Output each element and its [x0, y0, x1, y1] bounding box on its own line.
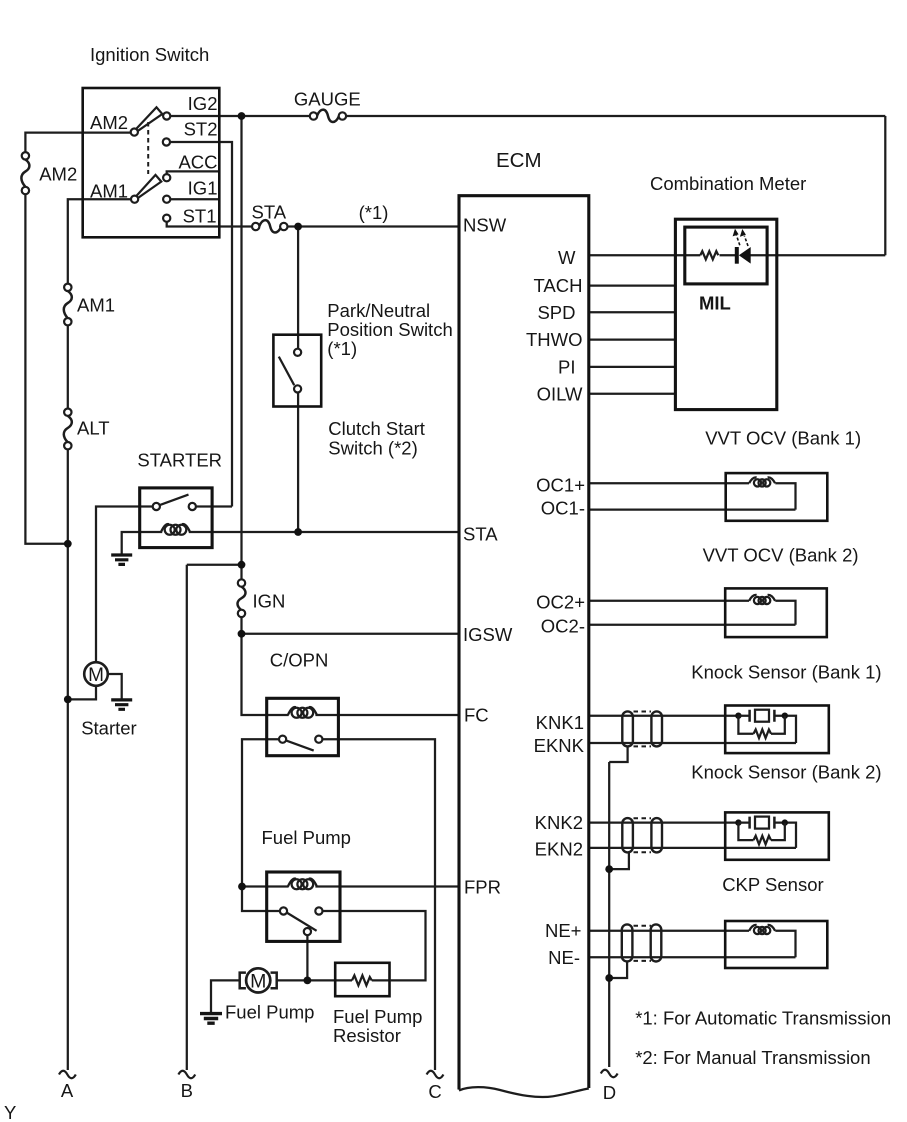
fuel pump relay lever	[287, 913, 317, 931]
svg-text:OC1+: OC1+	[536, 475, 585, 496]
resistor MIL	[700, 251, 718, 259]
wire IGN fuse segments	[242, 565, 289, 715]
node IGSW junction	[238, 630, 246, 638]
svg-text:A: A	[61, 1080, 74, 1101]
svg-text:OC2+: OC2+	[536, 592, 585, 613]
wire IG1	[170, 198, 219, 200]
svg-text:VVT OCV (Bank 1): VVT OCV (Bank 1)	[705, 428, 861, 449]
node fuel pump motor junction	[304, 977, 312, 985]
node STA junction	[294, 223, 302, 231]
wire IGSW	[242, 633, 459, 635]
CKP sensor box	[725, 921, 827, 968]
wire AM1-ALT segment	[67, 325, 69, 409]
ground starter relay	[111, 555, 132, 564]
shielded cable KNK2 dashed	[634, 818, 652, 852]
svg-text:AM1: AM1	[90, 181, 128, 202]
svg-text:M: M	[88, 665, 104, 686]
svg-text:THWO: THWO	[526, 329, 583, 350]
svg-text:C: C	[428, 1081, 441, 1102]
svg-text:Clutch Start: Clutch Start	[328, 418, 425, 439]
svg-text:Y: Y	[4, 1102, 16, 1122]
svg-text:ACC: ACC	[178, 152, 217, 173]
ECM box	[459, 196, 589, 1090]
wire SPD	[589, 311, 674, 313]
wire shield drain bus to D	[608, 762, 610, 1067]
wire GAUGE vertical down to MIL	[884, 116, 886, 255]
wire starter motor bottom to bus	[68, 686, 96, 700]
shielded cable KNK2 pills	[622, 818, 633, 852]
shielded cable NE dashed	[634, 926, 652, 961]
svg-text:IG1: IG1	[188, 178, 218, 199]
MIL box	[685, 227, 767, 284]
wire B branch	[187, 564, 242, 566]
svg-text:TACH: TACH	[534, 275, 583, 296]
svg-text:IGSW: IGSW	[463, 624, 513, 645]
ECM wavy bottom	[459, 1087, 589, 1097]
wire AM2 bus below fuse to junction	[25, 194, 67, 544]
svg-text:STA: STA	[463, 523, 498, 544]
wire C/OPN switch left down to fuel pump	[242, 739, 280, 911]
node starter motor junction	[64, 696, 72, 704]
C/OPN relay coil	[288, 707, 317, 718]
wire AM1 row	[68, 199, 131, 284]
fuel pump motor M	[240, 968, 277, 992]
wire shield drain NE	[609, 962, 627, 979]
wire PI	[589, 366, 674, 368]
knock sensor bank2 box	[725, 812, 829, 859]
wire starter motor right to ground	[108, 674, 122, 699]
wire starter relay left contact to motor	[96, 507, 153, 663]
svg-text:AM1: AM1	[77, 295, 115, 316]
coil VVT OCV bank1	[749, 477, 775, 486]
wire shield drain KNK1	[609, 746, 627, 762]
wire OC2-	[589, 624, 796, 626]
svg-text:AM2: AM2	[39, 164, 77, 185]
svg-text:D: D	[603, 1082, 616, 1103]
break B	[178, 1071, 195, 1079]
svg-text:MIL: MIL	[699, 293, 731, 314]
starter relay contact left	[153, 503, 160, 510]
svg-text:M: M	[250, 970, 266, 992]
svg-text:*1: For Automatic Transmission: *1: For Automatic Transmission	[635, 1008, 891, 1029]
wire OC1+	[589, 483, 796, 509]
node AM2-AM1 junction	[64, 540, 72, 548]
wire TACH	[589, 284, 674, 286]
wire IG2 to GAUGE to right edge	[170, 115, 885, 117]
break C	[427, 1071, 444, 1079]
piezo element KNK2	[735, 817, 788, 845]
node B-IGN junction	[238, 561, 246, 569]
wire OILW	[589, 393, 674, 395]
wire EKNK	[589, 742, 796, 744]
svg-text:NE-: NE-	[548, 947, 580, 968]
fuel pump relay coil	[288, 879, 317, 890]
wire NE+	[589, 931, 796, 957]
wire ALT down to A	[67, 449, 69, 1070]
wire FC from C/OPN coil	[315, 714, 458, 716]
starter relay contact right	[189, 503, 196, 510]
svg-text:AM2: AM2	[90, 112, 128, 133]
svg-text:STARTER: STARTER	[137, 450, 222, 471]
park/neutral contact bottom	[294, 385, 301, 392]
terminal AM2 pivot	[131, 129, 138, 136]
starter relay coil	[161, 524, 190, 535]
svg-text:Knock Sensor (Bank 2): Knock Sensor (Bank 2)	[691, 761, 881, 782]
wire IG2 bus vertical	[240, 116, 242, 565]
svg-text:(*1): (*1)	[359, 202, 389, 223]
switch lever AM2	[136, 107, 162, 131]
node drain NE junction	[605, 974, 613, 982]
C/OPN contact left	[279, 736, 286, 743]
svg-text:Resistor: Resistor	[333, 1025, 401, 1046]
ground fuel pump	[200, 1014, 222, 1024]
park/neutral contact top	[294, 349, 301, 356]
terminal IG1	[163, 196, 170, 203]
wire ST2 to starter relay contact	[170, 142, 232, 507]
svg-text:PI: PI	[558, 357, 575, 378]
svg-text:ALT: ALT	[77, 418, 110, 439]
fuse STA	[259, 220, 281, 232]
fuse IGN	[237, 587, 245, 611]
svg-text:SPD: SPD	[537, 302, 575, 323]
svg-text:OILW: OILW	[537, 383, 583, 404]
svg-text:IG2: IG2	[188, 93, 218, 114]
coil CKP	[749, 925, 775, 934]
wire P/N switch top	[297, 227, 299, 349]
wire KNK2	[589, 821, 738, 823]
wire W to MIL	[589, 254, 885, 256]
svg-text:Switch (*2): Switch (*2)	[328, 437, 417, 458]
wire P/N switch bottom to STA	[297, 392, 299, 532]
svg-text:Position Switch: Position Switch	[327, 319, 452, 340]
starter motor M	[84, 662, 108, 686]
svg-text:OC2-: OC2-	[541, 616, 585, 637]
svg-text:ECM: ECM	[496, 149, 542, 172]
node drain KNK2 junction	[605, 865, 613, 873]
svg-text:W: W	[558, 247, 576, 268]
wire EKN2	[589, 847, 796, 849]
svg-text:Fuel Pump: Fuel Pump	[225, 1001, 314, 1022]
wire C/OPN switch right to C	[322, 739, 435, 1070]
C/OPN contact right	[315, 736, 322, 743]
wire OC1-	[589, 508, 796, 510]
svg-text:EKN2: EKN2	[535, 839, 583, 860]
fuel pump relay box	[267, 872, 340, 941]
park/neutral position switch box	[273, 335, 321, 407]
switch lever AM1	[136, 175, 161, 198]
svg-text:EKNK: EKNK	[534, 735, 585, 756]
wire fuel pump relay coil row FPR	[242, 885, 458, 887]
wire KNK1 internal right	[785, 716, 796, 743]
combination meter box	[675, 219, 776, 409]
svg-text:ST2: ST2	[184, 119, 218, 140]
starter relay box	[140, 488, 212, 548]
svg-text:*2: For Manual Transmission: *2: For Manual Transmission	[635, 1047, 870, 1068]
svg-text:Fuel Pump: Fuel Pump	[262, 827, 351, 848]
wire OC2+	[589, 601, 796, 625]
svg-text:NSW: NSW	[463, 215, 507, 236]
wire THWO	[589, 338, 674, 340]
svg-text:OC1-: OC1-	[541, 498, 585, 519]
wire fuel pump motor right to junction	[277, 979, 334, 981]
terminal IG2	[163, 112, 170, 119]
svg-text:Knock Sensor (Bank 1): Knock Sensor (Bank 1)	[691, 661, 881, 682]
node IG2 junction	[238, 112, 246, 120]
svg-text:STA: STA	[251, 202, 286, 223]
terminal ST1	[163, 215, 170, 222]
wire fuel pump relay lower contact down	[306, 935, 308, 980]
svg-text:VVT OCV (Bank 2): VVT OCV (Bank 2)	[703, 545, 859, 566]
fuel pump contact left	[280, 907, 287, 914]
wire B vertical	[186, 565, 188, 1070]
svg-text:KNK1: KNK1	[536, 712, 584, 733]
piezo element KNK1	[735, 710, 788, 738]
linkage dashed	[147, 122, 149, 174]
ground starter motor	[111, 700, 132, 709]
wire STA line relay coil to ECM	[189, 531, 458, 533]
terminal ACC	[163, 174, 170, 181]
node fuel pump coil junction	[238, 883, 246, 891]
wire AM2 row	[25, 133, 130, 153]
svg-text:IGN: IGN	[253, 590, 286, 611]
svg-text:FPR: FPR	[464, 877, 501, 898]
svg-text:ST1: ST1	[183, 206, 217, 227]
terminal ST2	[163, 138, 170, 145]
knock sensor bank1 box	[725, 706, 829, 754]
C/OPN relay box	[267, 698, 339, 755]
wire shield drain KNK2	[609, 852, 629, 869]
break A	[59, 1071, 76, 1079]
svg-text:GAUGE: GAUGE	[294, 89, 361, 110]
svg-text:C/OPN: C/OPN	[270, 650, 329, 671]
VVT OCV bank1 box	[726, 473, 828, 521]
svg-text:NE+: NE+	[545, 920, 582, 941]
terminal AM1 pivot	[131, 196, 138, 203]
wire ST1 to STA fuse to NSW	[167, 222, 458, 227]
svg-text:B: B	[181, 1080, 193, 1101]
VVT OCV bank2 box	[725, 588, 827, 637]
shielded cable KNK1 dashed	[634, 712, 652, 747]
svg-text:FC: FC	[464, 705, 489, 726]
fuse ALT	[64, 416, 72, 442]
shielded cable NE pills	[622, 924, 633, 961]
fuel pump contact lower	[304, 928, 311, 935]
svg-text:Starter: Starter	[81, 718, 137, 739]
starter relay lever	[159, 495, 188, 506]
svg-text:CKP Sensor: CKP Sensor	[722, 874, 823, 895]
resistor fuel pump	[352, 975, 372, 985]
break D	[601, 1070, 618, 1078]
wire resistor leads	[335, 979, 391, 981]
fuse AM2	[21, 160, 29, 187]
svg-text:Ignition Switch: Ignition Switch	[90, 44, 209, 65]
wire ACC stub	[167, 171, 220, 174]
fuse GAUGE	[317, 110, 339, 122]
svg-text:(*1): (*1)	[327, 338, 357, 359]
coil VVT OCV bank2	[749, 595, 775, 604]
wire NE-	[589, 956, 796, 958]
fuel pump resistor box	[335, 963, 389, 996]
shielded cable KNK1 pills	[622, 711, 633, 746]
wire starter relay coil left to ground	[122, 532, 163, 554]
wire fuel pump motor left to ground	[211, 980, 240, 1012]
svg-text:Combination Meter: Combination Meter	[650, 173, 806, 194]
C/OPN relay lever	[286, 740, 314, 750]
wire fuel pump relay right contact to resistor	[322, 911, 425, 980]
park/neutral switch lever	[279, 357, 294, 386]
svg-text:KNK2: KNK2	[535, 812, 583, 833]
svg-text:Fuel Pump: Fuel Pump	[333, 1006, 422, 1027]
fuse AM1	[64, 291, 72, 318]
svg-text:Park/Neutral: Park/Neutral	[327, 300, 430, 321]
ignition switch box	[83, 88, 220, 237]
fuel pump contact right	[315, 907, 322, 914]
node STA-coil junction	[294, 528, 302, 536]
wire KNK2 internal right	[785, 823, 796, 848]
LED MIL	[733, 229, 751, 264]
wire KNK1	[589, 715, 738, 717]
